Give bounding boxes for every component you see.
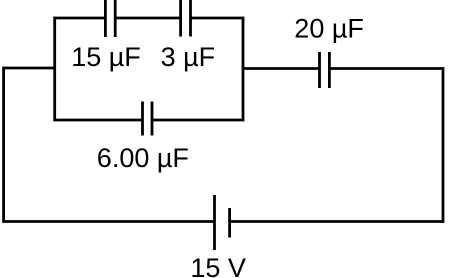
wire: right connector left segment (box to 20uF cap): [242, 67, 320, 70]
battery V1 short plate: [228, 208, 231, 238]
wire: box bottom edge segment 2 (C3 to right corner): [152, 119, 244, 122]
svg-text:20 µF: 20 µF: [294, 14, 364, 44]
wire: box top edge segment 3 (C2 to right corner): [191, 17, 245, 20]
wire: outer bottom left segment (to battery long plate): [3, 220, 215, 223]
wire: outer left vertical: [2, 67, 5, 223]
svg-text:15 V: 15 V: [190, 253, 246, 278]
wire: outer bottom right segment (from battery short plate): [230, 220, 444, 223]
capacitor C1 15uF plates: [105, 0, 115, 37]
wire: left connector from outer loop to parallel box: [3, 67, 56, 70]
wire: box left edge: [53, 17, 56, 121]
wire: outer right vertical: [442, 67, 445, 222]
wire: box bottom edge segment 1 (left corner to C3): [54, 119, 143, 122]
svg-text:6.00 µF: 6.00 µF: [97, 143, 189, 173]
capacitor C2 3uF plates: [181, 0, 191, 37]
battery V1 long plate: [213, 195, 216, 250]
capacitor C3 6.00uF plates: [143, 102, 153, 136]
wire: box top edge segment 2 (C1 to C2): [115, 17, 180, 20]
svg-text:3 µF: 3 µF: [161, 42, 216, 72]
wire: box right edge: [242, 17, 245, 121]
svg-text:15 µF: 15 µF: [71, 42, 141, 72]
capacitor C4 20uF plates: [320, 52, 330, 88]
wire: box top edge segment 1 (left corner to C1): [54, 17, 106, 20]
wire: right connector right segment (20uF cap to outer right): [329, 67, 444, 70]
